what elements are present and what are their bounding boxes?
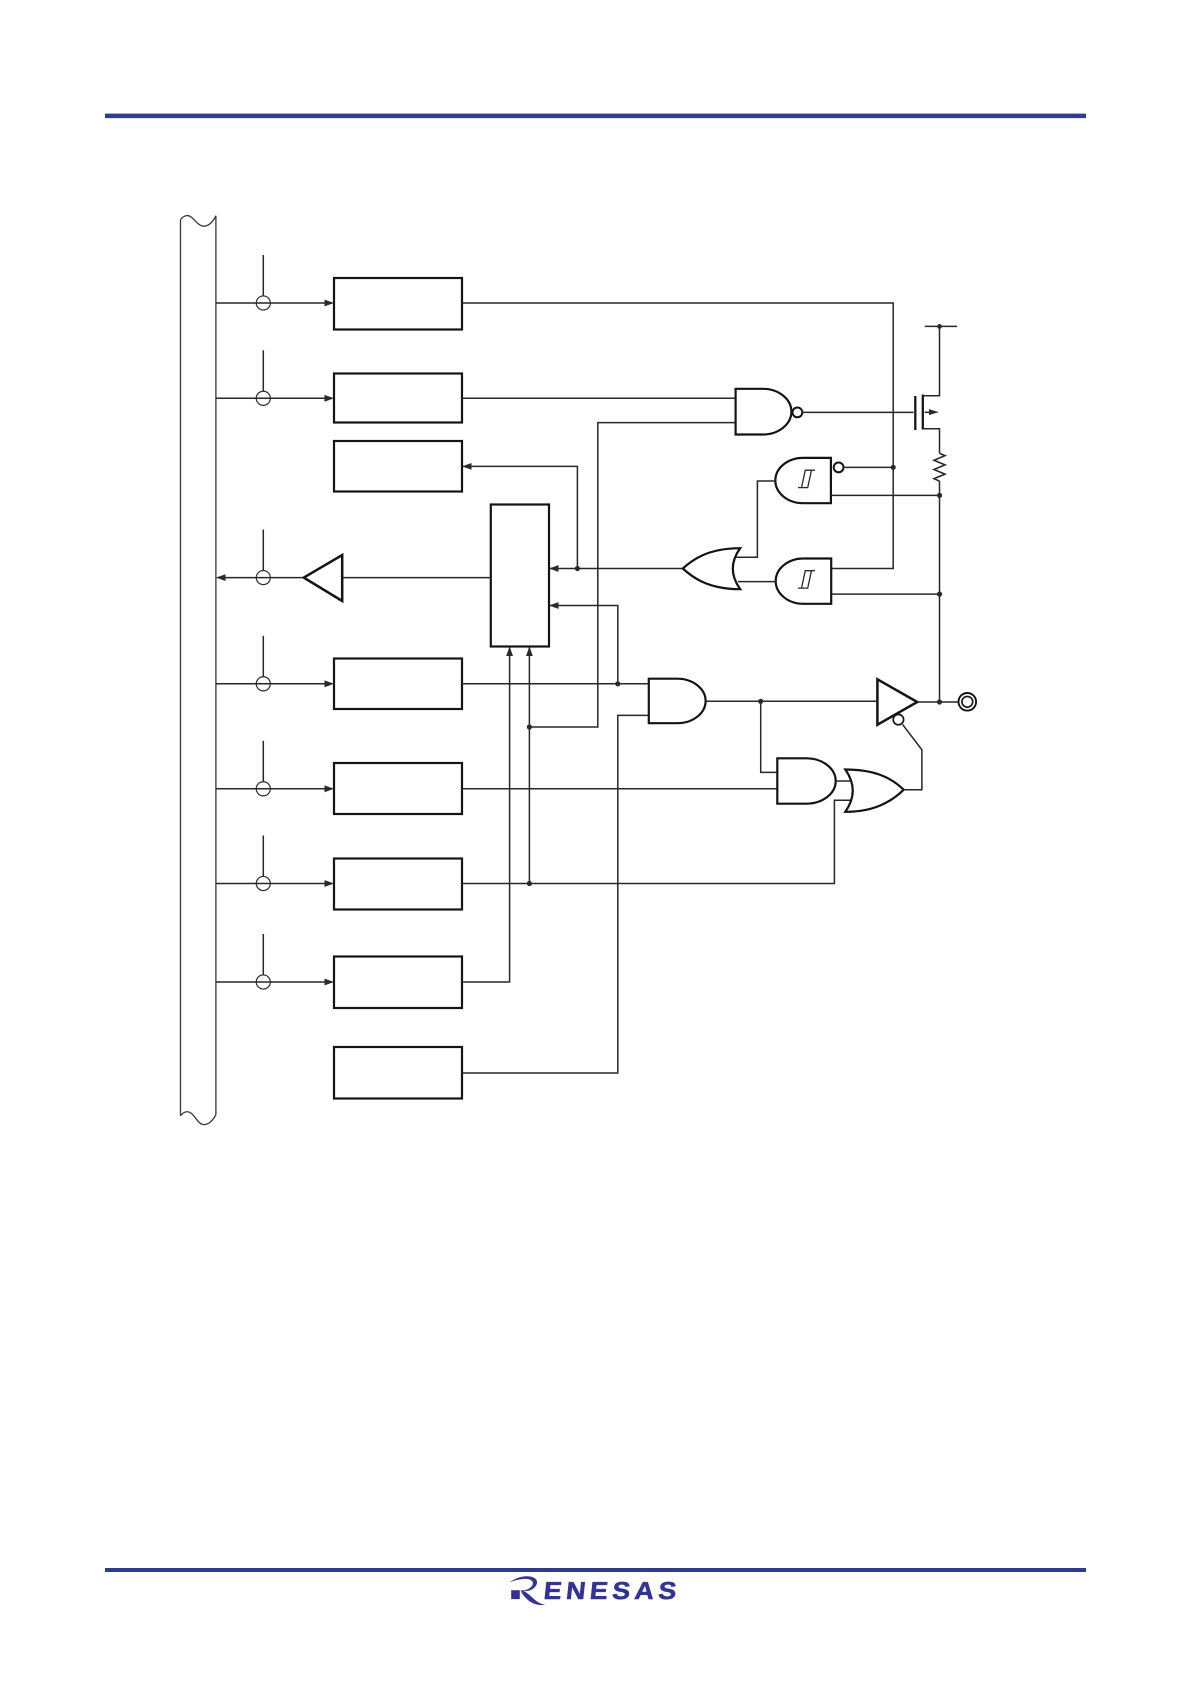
register box 3 xyxy=(334,441,462,492)
wire bus to register 6 xyxy=(216,883,332,885)
wire register 4 to AND1 upper input xyxy=(462,683,649,685)
output buffer triangle xyxy=(877,679,917,724)
wire resistor to pad node xyxy=(939,481,941,702)
I/O pad (double circle) xyxy=(959,693,977,711)
wire register1 net down to Schmitt2 xyxy=(831,467,893,568)
junction dot register6 line B xyxy=(527,881,532,886)
wire register 6 to OR2 lower input xyxy=(462,800,854,883)
hysteresis symbol 1 xyxy=(798,470,815,487)
node circle row read xyxy=(256,571,270,585)
OR gate 2 xyxy=(845,770,903,812)
MOSFET drain stub xyxy=(923,326,940,395)
register box 8 xyxy=(334,1047,462,1099)
Schmitt trigger input buffer 1 xyxy=(775,458,831,503)
stub wire above row 5 circle xyxy=(262,741,264,782)
node circle row 4 xyxy=(256,677,270,691)
junction dot power xyxy=(937,324,942,329)
wire register 7 up into control box xyxy=(462,648,510,983)
wire register 5 to AND2 lower input xyxy=(462,788,777,790)
register box 1 xyxy=(334,278,462,330)
Schmitt 1 enable bubble xyxy=(834,463,844,473)
node circle row 2 xyxy=(256,391,270,405)
wire buffer output to pad xyxy=(917,701,958,703)
stub wire above row 7 circle xyxy=(262,934,264,975)
wire register 8 to AND1 lower input xyxy=(462,715,649,1073)
wire AND2 output to OR2 xyxy=(836,780,850,782)
footer rule xyxy=(105,1568,1086,1572)
stub wire above read circle xyxy=(262,530,264,571)
pull-up resistor R1 xyxy=(934,453,945,481)
node circle row 7 xyxy=(256,975,270,989)
register box 2 xyxy=(334,374,462,423)
wire bus to register 1 xyxy=(216,302,332,304)
power supply bar VCC xyxy=(925,325,957,327)
wire AND1 branch to AND2 upper input xyxy=(761,701,778,772)
wire Schmitt2 input from pad xyxy=(831,593,939,595)
control logic tall box xyxy=(491,505,549,647)
wire control box to read buffer xyxy=(342,577,491,579)
wire read buffer to bus with arrow xyxy=(217,577,304,579)
wire bus to register 7 xyxy=(216,981,332,983)
wire register 2 to NAND upper input xyxy=(462,397,736,399)
wire AND1 output to output buffer xyxy=(706,700,878,702)
wire OR1 upper input riser xyxy=(736,556,757,558)
register box 7 xyxy=(334,957,462,1009)
wire register 1 output to node over MOSFET branch xyxy=(462,303,893,467)
wire Schmitt1 input from pad xyxy=(831,494,940,496)
hysteresis symbol 2 xyxy=(798,571,815,588)
junction dot AND1 branch xyxy=(758,699,763,704)
Renesas logo xyxy=(510,1576,682,1605)
pull-up MOSFET Q1 xyxy=(915,326,939,453)
node circle row 5 xyxy=(256,782,270,796)
NAND gate U1 xyxy=(736,389,792,435)
junction dot OR1 branch xyxy=(575,566,580,571)
junction dot register1 net xyxy=(891,465,896,470)
AND gate 1 xyxy=(649,679,706,724)
header rule xyxy=(105,114,1086,119)
wire line B up into control box xyxy=(528,648,530,884)
branch wire register4 to control box right side xyxy=(550,606,618,684)
wire Schmitt1 output to OR1 xyxy=(736,481,776,557)
junction dot NAND branch xyxy=(527,724,532,729)
svg-text:ENESAS: ENESAS xyxy=(542,1578,682,1605)
node circle row 6 xyxy=(256,876,270,890)
MOSFET source stub xyxy=(923,429,940,454)
stub wire above row 6 circle xyxy=(262,836,264,877)
junction dot pad-Schmitt2 xyxy=(937,592,942,597)
output buffer enable bubble xyxy=(893,714,903,724)
wire bus to register 4 xyxy=(216,683,332,685)
wire bus to register 5 xyxy=(216,788,332,790)
OR gate 1 (mirrored, output left) xyxy=(683,548,740,589)
wire NAND output to MOSFET gate xyxy=(802,411,913,413)
stub wire above row 1 circle xyxy=(262,255,264,296)
Schmitt trigger input buffer 2 xyxy=(776,559,832,604)
MOSFET gate bar xyxy=(914,396,916,430)
MOSFET bulk arrow xyxy=(925,411,931,413)
wire bus to register 2 xyxy=(216,397,332,399)
wire OR1 output to control box xyxy=(550,568,683,570)
junction dot pad node xyxy=(937,699,942,704)
stub wire above row 2 circle xyxy=(262,350,264,391)
wire Schmitt2 output to OR1 lower input xyxy=(738,581,776,583)
wire into register 3 from internal node xyxy=(463,466,577,568)
wire Schmitt1 bubble to register1 net xyxy=(844,466,894,468)
MOSFET channel bar xyxy=(922,395,924,430)
wire OR2 output to tri-state enable xyxy=(903,725,922,790)
data bus (vertical double line with wavy ends) xyxy=(181,216,216,1125)
AND gate 2 xyxy=(777,758,835,803)
register box 6 xyxy=(334,859,462,910)
register box 5 xyxy=(334,763,462,814)
junction dot pad-Schmitt1 xyxy=(937,493,942,498)
junction dot register4 branch xyxy=(615,681,620,686)
read buffer triangle xyxy=(304,555,342,601)
wire branch to NAND lower input xyxy=(529,423,735,727)
node circle row 1 xyxy=(256,296,270,310)
register box 4 xyxy=(334,659,462,710)
NAND output bubble xyxy=(793,408,803,418)
stub wire above row 4 circle xyxy=(262,636,264,677)
